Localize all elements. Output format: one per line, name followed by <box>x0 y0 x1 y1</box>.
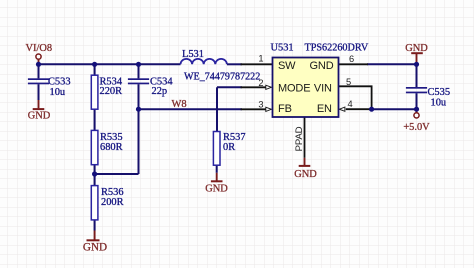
svg-text:GND: GND <box>405 43 428 54</box>
svg-text:W8: W8 <box>172 99 187 110</box>
svg-text:200R: 200R <box>101 197 124 208</box>
svg-text:PPAD: PPAD <box>294 126 305 151</box>
svg-text:GND: GND <box>205 183 228 194</box>
svg-text:3: 3 <box>258 100 263 110</box>
svg-text:10u: 10u <box>50 87 66 98</box>
svg-text:VI/O8: VI/O8 <box>26 43 53 54</box>
svg-text:GND: GND <box>310 60 334 72</box>
svg-text:EN: EN <box>317 103 332 115</box>
svg-text:10u: 10u <box>431 97 447 108</box>
svg-text:6: 6 <box>349 54 354 64</box>
svg-text:220R: 220R <box>100 86 123 97</box>
svg-text:680R: 680R <box>100 142 123 153</box>
svg-text:VIN: VIN <box>314 82 332 94</box>
svg-text:L531: L531 <box>182 49 204 60</box>
svg-text:U531: U531 <box>271 42 294 53</box>
svg-text:GND: GND <box>28 111 51 122</box>
svg-text:+5.0V: +5.0V <box>403 122 430 133</box>
svg-text:1: 1 <box>258 53 263 63</box>
svg-text:0R: 0R <box>223 142 235 153</box>
svg-text:TPS62260DRV: TPS62260DRV <box>305 42 369 53</box>
svg-text:5: 5 <box>346 77 351 87</box>
svg-text:4: 4 <box>348 99 353 109</box>
svg-text:MODE: MODE <box>278 82 310 94</box>
svg-text:C535: C535 <box>428 87 451 98</box>
svg-text:FB: FB <box>278 103 292 115</box>
svg-text:WE_74479787222: WE_74479787222 <box>184 71 260 82</box>
svg-text:GND: GND <box>83 242 107 254</box>
svg-text:SW: SW <box>278 60 296 72</box>
svg-text:22p: 22p <box>152 86 168 97</box>
svg-text:GND: GND <box>294 169 317 180</box>
